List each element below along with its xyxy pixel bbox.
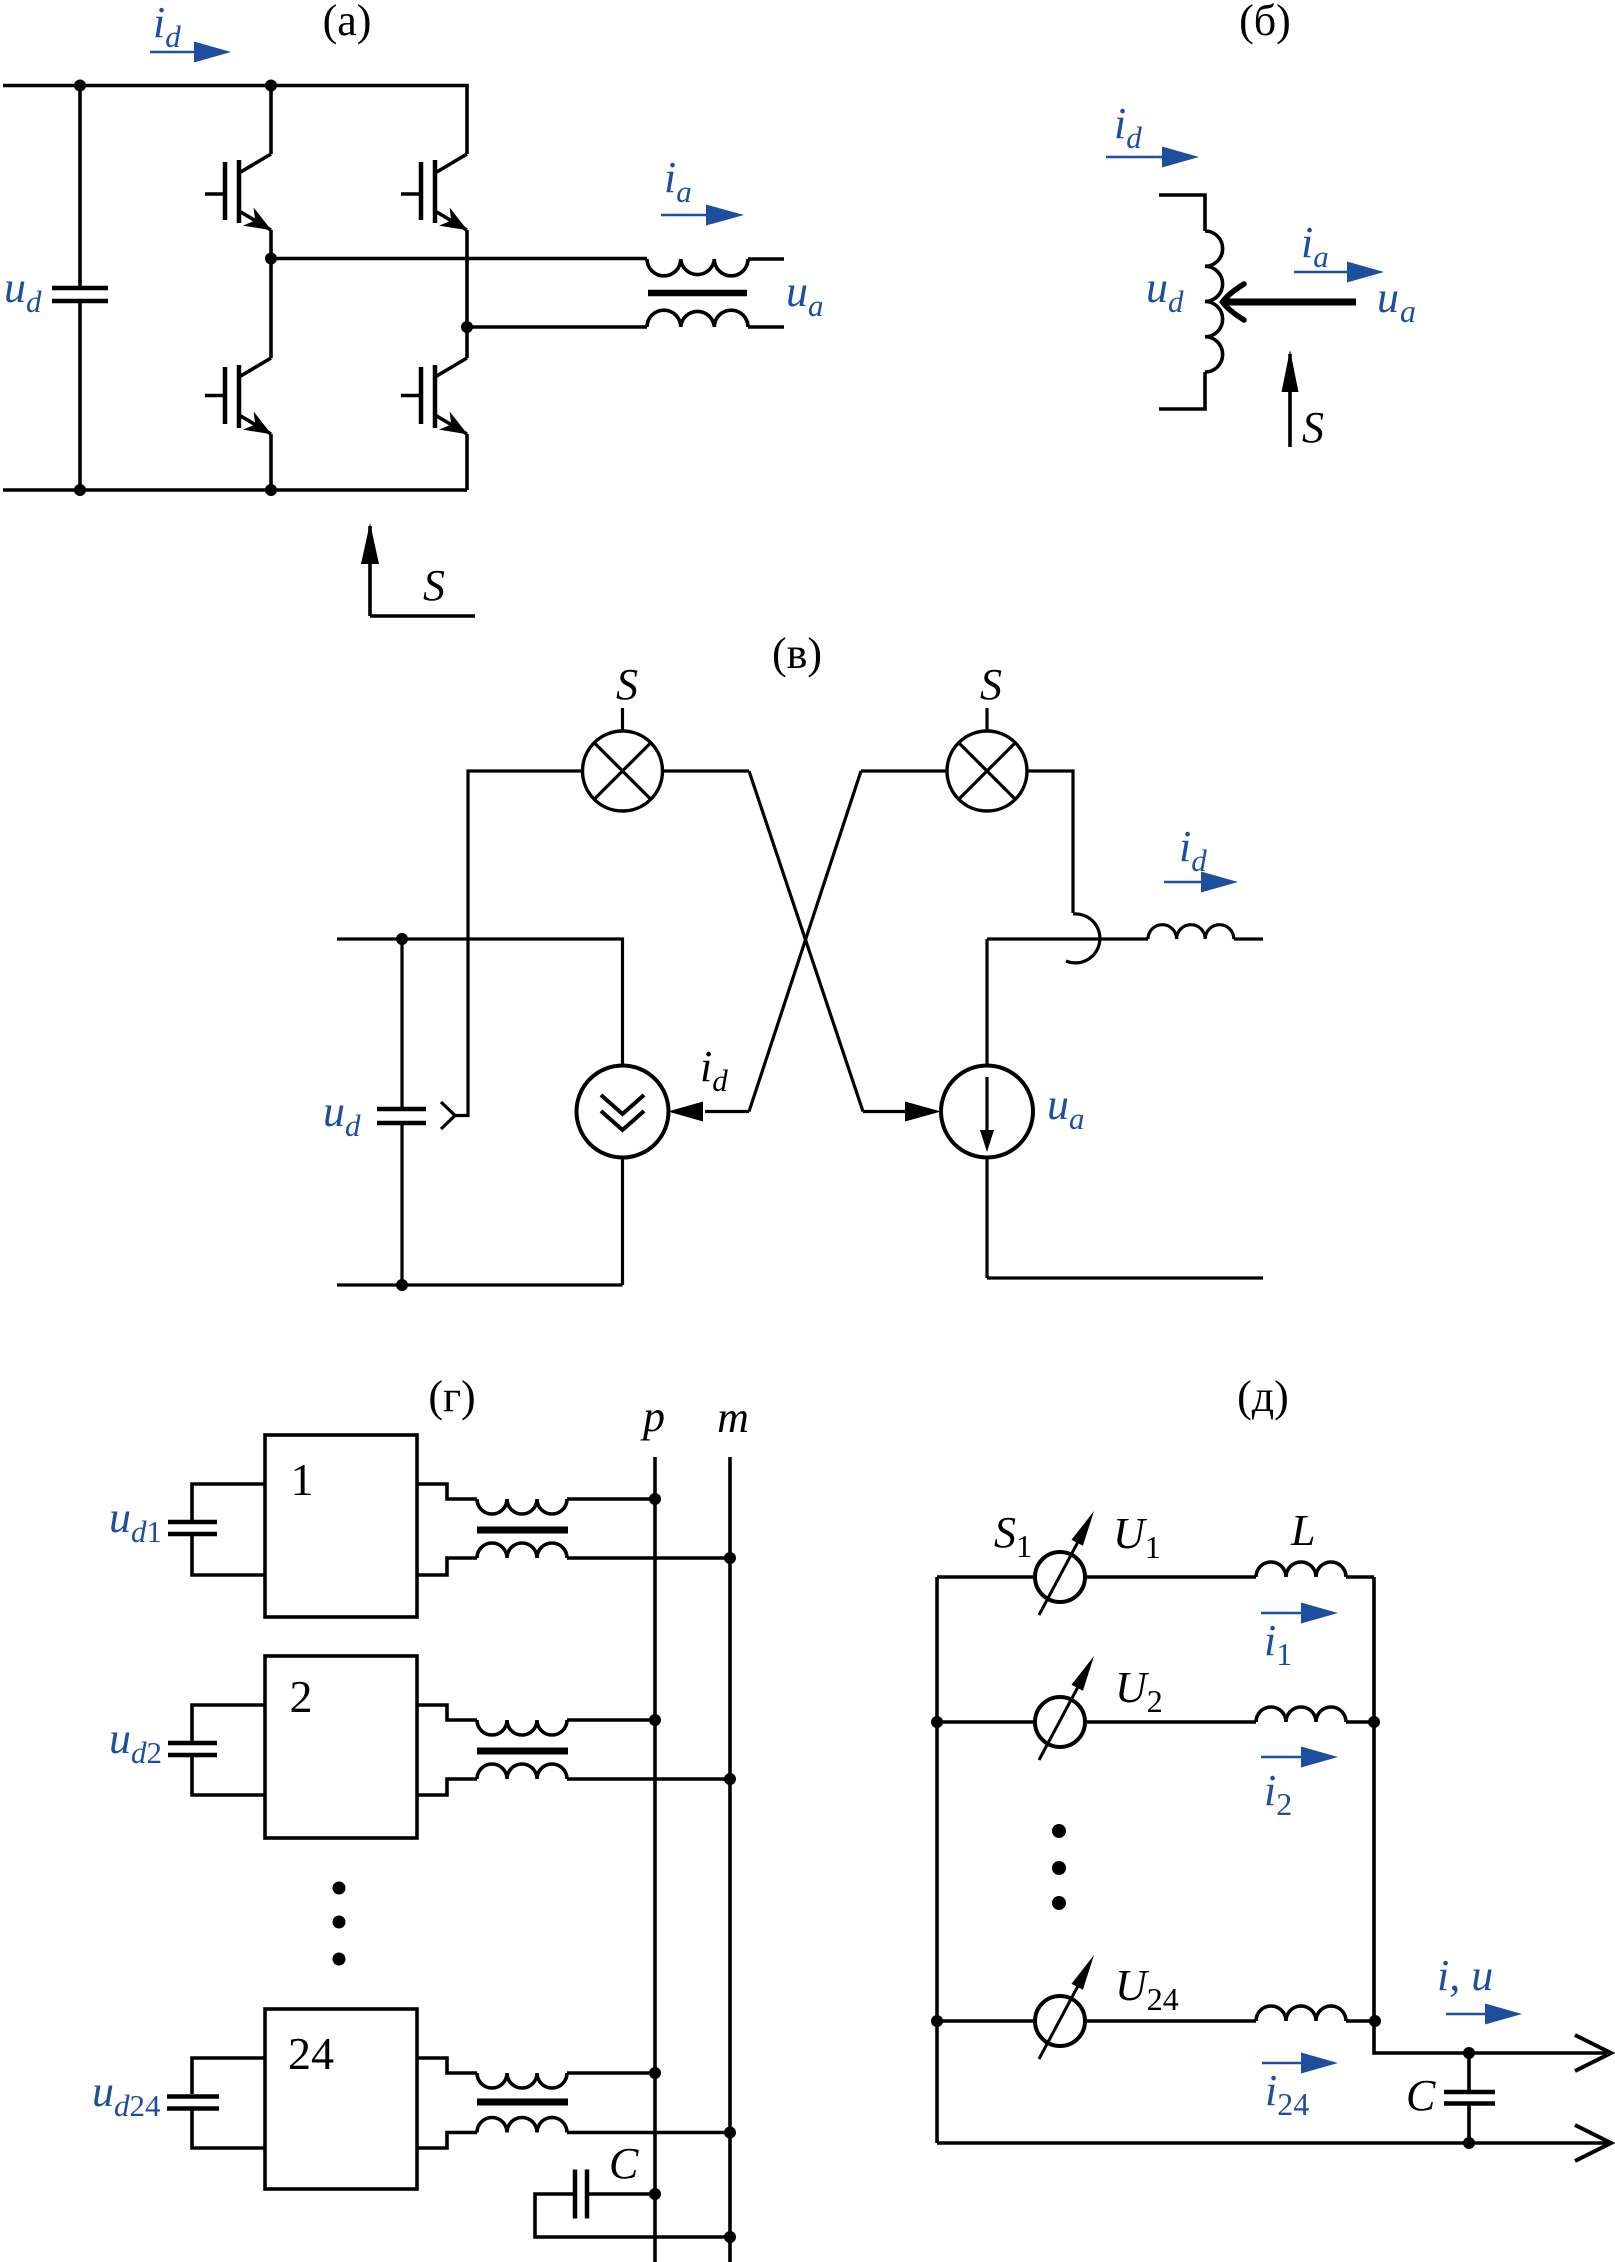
node: left midpoint junction: [265, 253, 277, 265]
wire: left leg midpoint: [269, 230, 273, 358]
node on left bus: [931, 2015, 943, 2027]
transformer T24 secondary lead: [417, 2133, 477, 2149]
wire to bus p: [567, 2071, 655, 2075]
transformer T1 secondary winding: [477, 1543, 567, 1558]
voltage probe chevron at ud: [441, 1102, 455, 1129]
cell 2 block: [265, 1656, 417, 1838]
node: C bottom junction: [1463, 2137, 1475, 2149]
label id (into source): [700, 1042, 728, 1098]
label ud2: [109, 1714, 162, 1770]
label i2: [1264, 1766, 1292, 1822]
arrow id (blue): [1164, 881, 1203, 884]
capacitor ud upper lead: [400, 939, 403, 1107]
label S (right): [980, 660, 1002, 709]
svg-text:24: 24: [288, 2028, 334, 2079]
node: dc bottom junction: [396, 1279, 408, 1291]
capacitor ud2 loop: [192, 1705, 265, 1795]
svg-text:L: L: [1290, 1506, 1315, 1555]
transistor Q4 (lower-right IGBT): [401, 358, 468, 434]
arrow i2 (blue): [1261, 1756, 1303, 1759]
wire: crossing diagonal (left multiplier to ua source): [749, 771, 863, 1112]
inductor L row2: [1256, 1707, 1346, 1722]
transformer T1 primary winding: [477, 1499, 567, 1514]
node: C top junction: [1463, 2047, 1475, 2059]
svg-text:C: C: [609, 2139, 639, 2188]
cell 24 block: [265, 2009, 417, 2189]
node on bus p: [649, 1493, 661, 1505]
label S: [423, 561, 445, 610]
wire: ac-side bottom: [987, 1158, 1263, 1279]
row 2 wire left: [937, 1720, 1035, 1724]
transformer T2 primary lead: [417, 1705, 477, 1720]
node on right bus: [1368, 1716, 1380, 1728]
capacitor ud1 loop: [192, 1484, 265, 1575]
svg-text:1: 1: [291, 1454, 314, 1505]
wire+arrow into ua source: [863, 1110, 907, 1113]
label ua: [786, 267, 824, 323]
label p: [640, 1392, 665, 1441]
svg-text:(а): (а): [323, 0, 372, 45]
arrow id (blue): [1106, 156, 1164, 159]
wire to bus m: [567, 2131, 730, 2135]
label C: [1406, 2071, 1436, 2120]
wire: dc-side top: [337, 939, 623, 1066]
wire: right multiplier input from crossing: [861, 769, 947, 772]
node on left bus: [931, 1716, 943, 1728]
wire: right midpoint to transformer: [467, 325, 647, 329]
node: right midpoint junction: [461, 321, 473, 333]
transformer T1 secondary winding: [647, 310, 748, 327]
wire to bus m: [567, 1556, 730, 1560]
transformer T2 secondary winding: [477, 1764, 567, 1779]
node on bus m: [724, 1552, 736, 1564]
output arrow bottom (open chevron): [1575, 2125, 1611, 2161]
transistor Q1 (upper-left IGBT): [205, 154, 272, 230]
wire: left leg drop: [269, 86, 273, 155]
node on bus m: [724, 2127, 736, 2139]
svg-text:C: C: [1406, 2071, 1436, 2120]
wire: crossing diagonal (right multiplier to id source): [749, 771, 861, 1112]
transformer T2 core: [477, 1748, 568, 1755]
transformer T24 primary lead: [417, 2058, 477, 2073]
transformer T24 secondary winding: [477, 2118, 567, 2133]
label (v): [772, 629, 822, 678]
wire: C left lead down to bus m: [535, 2194, 730, 2237]
wire: dc-side bottom: [337, 1283, 623, 1286]
wire to bus p: [567, 1718, 655, 1722]
svg-text:(б): (б): [1239, 0, 1291, 45]
label S: [1302, 403, 1324, 452]
output arrow top (open chevron): [1575, 2035, 1611, 2071]
svg-text:S: S: [616, 660, 638, 709]
arrow S: [1288, 354, 1292, 447]
capacitor C plates: [1444, 2092, 1495, 2104]
label ud1: [109, 1493, 162, 1549]
label 1: [291, 1454, 314, 1505]
ellipsis dots: [1052, 1824, 1066, 1910]
label i24: [1265, 2066, 1309, 2122]
svg-text:(в): (в): [772, 629, 822, 678]
svg-text:S: S: [1302, 403, 1324, 452]
multiplier U2 (right, circle with X): [947, 731, 1027, 811]
label U2: [1115, 1663, 1163, 1719]
label (b): [1239, 0, 1291, 45]
label (d): [1237, 1372, 1289, 1421]
capacitor ud24 loop: [192, 2058, 265, 2148]
wire: right leg midpoint: [465, 230, 469, 358]
row 24 wire left: [937, 2019, 1035, 2023]
transformer T24 primary winding: [477, 2073, 567, 2088]
svg-text:2: 2: [290, 1671, 313, 1722]
voltage source ua (circle with arrow): [941, 1066, 1033, 1158]
wire: right leg bottom: [465, 434, 469, 490]
label U1: [1113, 1509, 1161, 1565]
node: top rail junctions: [74, 80, 86, 92]
arrow ia (blue): [1294, 271, 1349, 274]
wire: top DC rail: [3, 86, 467, 155]
label ud24: [92, 2067, 161, 2123]
capacitor ud2 plates: [168, 1743, 217, 1755]
source U24 (circle with diagonal arrow): [1035, 1955, 1094, 2059]
svg-text:i, u: i, u: [1437, 1951, 1493, 2000]
row 2 wire to inductor: [1085, 1720, 1256, 1724]
wire: right bus and output top: [1374, 1577, 1607, 2053]
row 24 wire to right bus: [1346, 2019, 1375, 2023]
wire ua (thick line with open arrow into winding): [1223, 299, 1356, 306]
wire: left DC bus lower: [78, 303, 82, 490]
wire: left DC bus upper: [78, 86, 82, 287]
cell 1 block: [265, 1435, 417, 1617]
arrow i1 (blue): [1261, 1612, 1303, 1615]
inductor (ac side): [1148, 925, 1234, 939]
label S1: [994, 1508, 1032, 1564]
svg-text:S: S: [423, 561, 445, 610]
capacitor C plates (vertical): [575, 2170, 587, 2219]
wire: top stub: [1159, 195, 1205, 231]
arrow id (blue): [150, 51, 196, 54]
svg-text:S: S: [980, 660, 1002, 709]
row 24 wire to inductor: [1085, 2019, 1256, 2023]
label ua: [1047, 1080, 1085, 1136]
label i1: [1264, 1616, 1292, 1672]
wire: S stub to right multiplier: [985, 708, 988, 731]
label id (right): [1179, 822, 1207, 878]
wire: left midpoint to transformer: [271, 257, 647, 261]
wire: right multiplier output: [1027, 771, 1073, 913]
wire: bottom rail to output: [937, 2141, 1607, 2145]
node on bus p: [649, 2067, 661, 2079]
transformer T24 core: [477, 2099, 568, 2106]
wire: S stub to left multiplier: [621, 708, 624, 731]
capacitor ud1 plates: [168, 1522, 217, 1534]
wire+arrow id into dependent source: [705, 1110, 749, 1113]
capacitor ud plates: [377, 1109, 426, 1123]
ellipsis dots: [333, 1882, 346, 1966]
transformer T1 secondary lead: [417, 1558, 477, 1575]
dependent current source (double chevron): [577, 1066, 669, 1158]
transformer T2 secondary lead: [417, 1779, 477, 1795]
label ud: [4, 263, 42, 319]
capacitor ud lower lead: [400, 1125, 403, 1285]
multiplier U1 (left, circle with X): [583, 731, 663, 811]
transistor Q3 (upper-right IGBT): [401, 154, 468, 230]
svg-text:(д): (д): [1237, 1372, 1289, 1421]
source S1/U1 (circle with diagonal arrow): [1035, 1511, 1094, 1615]
label S (left): [616, 660, 638, 709]
transformer T1 primary winding: [647, 259, 748, 276]
label ua: [1377, 273, 1416, 329]
node on bus m: [724, 2231, 736, 2243]
node on bus p: [649, 2188, 661, 2200]
wire to bus m: [567, 1777, 730, 1781]
row 2 wire to right bus: [1346, 1720, 1374, 1724]
row 1 wire left: [937, 1575, 1035, 1579]
node on bus p: [649, 1714, 661, 1726]
wire to bus p: [567, 1497, 655, 1501]
label ia: [664, 153, 692, 209]
transformer T1 core: [648, 290, 747, 297]
row 1 wire to right bus: [1346, 1575, 1374, 1579]
arrow ia (blue): [661, 214, 708, 217]
label 24: [288, 2028, 334, 2079]
label (a): [323, 0, 372, 45]
label L: [1290, 1506, 1315, 1555]
bus m: [728, 1457, 732, 2262]
capacitor ud24 plates: [167, 2097, 219, 2109]
wire: left bus with bottom rail: [935, 1577, 939, 2143]
transformer T1 core: [477, 1527, 568, 1534]
node: bottom rail junctions: [74, 484, 86, 496]
capacitor C leads: [1467, 2053, 1471, 2143]
label 2: [290, 1671, 313, 1722]
inductor L row24: [1256, 2006, 1346, 2021]
inductor L row1: [1256, 1562, 1346, 1577]
label U24: [1115, 1961, 1179, 2017]
svg-text:m: m: [717, 1393, 749, 1442]
arrow i,u (blue): [1446, 2013, 1487, 2016]
svg-text:(г): (г): [428, 1372, 475, 1421]
node on bus m: [724, 1773, 736, 1785]
wire: bottom stub: [1159, 372, 1205, 409]
svg-text:p: p: [640, 1392, 665, 1441]
transformer T2 primary winding: [477, 1720, 567, 1735]
transformer T1 primary lead: [417, 1484, 477, 1499]
label C: [609, 2139, 639, 2188]
node: dc top junction: [396, 933, 408, 945]
label m: [717, 1393, 749, 1442]
label ud: [323, 1087, 361, 1143]
source U2 (circle with diagonal arrow): [1035, 1656, 1094, 1760]
current probe arc on id line: [1066, 914, 1100, 963]
row 1 wire to inductor: [1085, 1575, 1256, 1579]
label ud: [1146, 263, 1184, 319]
transistor Q2 (lower-left IGBT): [205, 358, 272, 434]
wire: left multiplier input from ud sense: [455, 771, 583, 1116]
node on right bus: [1369, 2015, 1381, 2027]
wire: ac-side top: [987, 937, 1148, 940]
wire: source bottom to dc rail: [621, 1158, 624, 1286]
winding (4 arcs): [1205, 231, 1223, 372]
wire: inductor tail: [1234, 937, 1263, 940]
label id: [153, 0, 181, 54]
arrow S (modulation input): [368, 526, 372, 616]
wire: bottom DC rail: [3, 488, 467, 492]
label id: [1114, 99, 1142, 155]
bus p: [653, 1457, 657, 2262]
arrow i24 (blue): [1262, 2062, 1303, 2065]
label (g): [428, 1372, 475, 1421]
wire: secondary tails: [748, 259, 784, 327]
wire: left multiplier output to crossing: [663, 769, 750, 772]
wire: C right lead to bus p: [589, 2192, 655, 2196]
label ia: [1301, 218, 1329, 274]
capacitor ud plates: [52, 288, 108, 301]
wire: left leg bottom: [269, 434, 273, 490]
label i,u: [1437, 1951, 1493, 2000]
